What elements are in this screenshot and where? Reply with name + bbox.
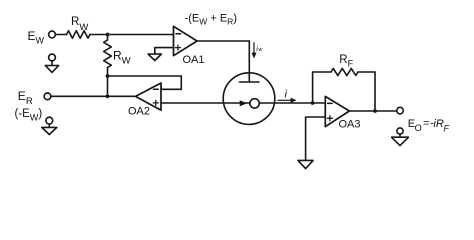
- current arrow i toward OA3 (shaft): [278, 99, 292, 101]
- op-amp OA1 minus pin mark: [176, 33, 181, 35]
- ground below EW (triangle): [45, 66, 58, 73]
- svg-text:RW: RW: [113, 48, 131, 66]
- wire OA1 noninverting input to ground: [155, 48, 174, 54]
- svg-text:i: i: [285, 89, 288, 101]
- node C junction (ER wire / OA2 output): [106, 94, 110, 98]
- wire OA2 feedback top: [108, 75, 182, 77]
- ground below ER (stem): [48, 124, 50, 128]
- svg-text:RW: RW: [71, 16, 88, 33]
- svg-text:EW: EW: [28, 29, 45, 46]
- op-amp OA2 minus pin mark: [154, 88, 159, 90]
- svg-text:OA1: OA1: [183, 54, 205, 66]
- wire RW to node A: [90, 34, 108, 36]
- arrowhead inside cell: [240, 100, 247, 106]
- wire EW terminal to RW: [55, 34, 66, 36]
- op-amp OA3 minus pin mark: [328, 102, 333, 104]
- wire OA1 output to corner: [197, 40, 249, 42]
- wire OA3 output to EO terminal: [349, 110, 397, 112]
- wire OA3 noninverting input to ground: [306, 117, 326, 160]
- svg-text:EO=-iRF: EO=-iRF: [408, 118, 451, 134]
- wire RF to right vertical: [358, 71, 375, 73]
- current arrow into cell (head): [252, 53, 257, 59]
- cell electrode top bar: [240, 81, 260, 83]
- resistor RW (vertical): [104, 40, 112, 68]
- node A junction (RW/RW/OA1): [106, 33, 110, 37]
- resistor RF: [331, 68, 358, 75]
- op-amp OA3 body: [325, 96, 349, 126]
- op-amp OA2 plus pin mark: [153, 100, 158, 105]
- wire RF feedback right vertical: [374, 72, 376, 111]
- svg-text:ER: ER: [18, 89, 33, 107]
- svg-text:RF: RF: [339, 54, 353, 69]
- op-amp OA1 body: [174, 26, 198, 55]
- svg-text:OA2: OA2: [128, 106, 150, 118]
- wire node A to OA1 inverting input: [108, 34, 174, 36]
- wire RF feedback left vertical: [312, 72, 314, 103]
- wire node B down to node C: [107, 76, 109, 96]
- ground below EW (stem): [51, 61, 53, 66]
- ground at OA1 plus input (triangle): [148, 54, 161, 61]
- ground below EO (stem): [399, 134, 401, 137]
- resistor RW (horizontal, input): [67, 31, 91, 39]
- node B junction (OA2 feedback tap): [106, 74, 110, 78]
- wire OA2 feedback to inverting input: [161, 88, 181, 90]
- wire RF feedback top left: [313, 71, 331, 73]
- ground below EO (triangle): [392, 137, 409, 145]
- ground below EW (terminal circle): [49, 54, 56, 61]
- op-amp OA3 plus pin mark: [327, 116, 332, 121]
- current arrow i toward OA3 (head): [291, 98, 297, 103]
- wire ER terminal to OA2 output: [51, 95, 136, 97]
- svg-text:iw: iw: [256, 46, 263, 53]
- wire corner down into cell electrode: [248, 41, 250, 82]
- wire node A down to RW vertical: [107, 35, 109, 41]
- current arrow into cell (shaft): [253, 43, 255, 54]
- node E junction (OA3 output): [373, 109, 377, 113]
- svg-text:(-EW): (-EW): [15, 108, 43, 122]
- node D junction (RF feedback tap): [311, 101, 315, 105]
- ground below ER (triangle): [42, 127, 57, 134]
- svg-text:-(EW + ER): -(EW + ER): [185, 13, 237, 27]
- op-amp OA1 plus pin mark: [175, 45, 180, 50]
- ground below EO (terminal circle): [397, 128, 403, 134]
- wire OA2 noninverting input through cell to OA3: [161, 102, 325, 104]
- cell center electrode small circle: [250, 99, 259, 108]
- op-amp OA2 body: [136, 83, 162, 110]
- wire RW vertical to node B: [107, 68, 109, 77]
- ground below ER (terminal circle): [46, 117, 53, 124]
- ground at OA3 plus input (triangle): [298, 160, 313, 168]
- node EO output terminal: [397, 107, 404, 114]
- node EW input terminal: [49, 31, 56, 38]
- node ER input terminal: [44, 93, 51, 100]
- wire OA2 feedback right vertical: [180, 76, 182, 89]
- svg-text:OA3: OA3: [339, 119, 361, 131]
- electrochemical cell circle: [223, 73, 275, 125]
